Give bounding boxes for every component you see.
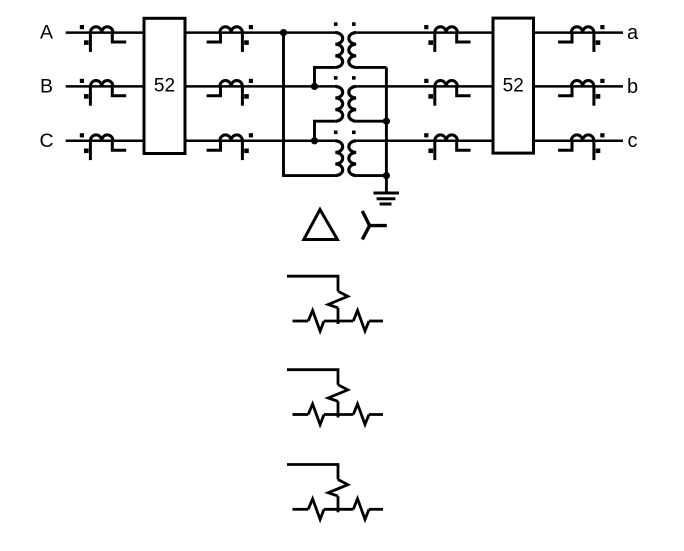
transformer T1 primary winding (delta, phase A) xyxy=(335,33,342,68)
ground (wye neutral) xyxy=(374,193,400,204)
transformer T2 secondary winding (wye, phase b) xyxy=(349,86,356,121)
wire wye W2 bottom to neutral xyxy=(356,120,386,123)
svg-text:b: b xyxy=(627,76,638,98)
resistor fig2 left xyxy=(308,404,324,425)
svg-text:52: 52 xyxy=(503,76,524,97)
CT phase b transformer-side right set xyxy=(424,79,470,106)
transformer T2 polarity dot secondary xyxy=(352,76,356,80)
transformer T2 polarity dot primary xyxy=(334,76,338,80)
wire fig3 bottom middle xyxy=(324,508,353,511)
transformer T1 polarity dot primary xyxy=(334,22,338,26)
wire phase b: transformer to breaker xyxy=(356,85,493,88)
wire phase c: breaker to label xyxy=(534,140,624,143)
wire wye neutral vertical xyxy=(385,67,388,191)
wire phase C: breaker to transformer xyxy=(185,140,336,143)
CT phase C transformer-side left set xyxy=(207,133,253,160)
wire fig1 top lead xyxy=(287,276,338,291)
node wye neutral junction b xyxy=(383,118,390,125)
svg-text:c: c xyxy=(628,130,638,152)
wire delta corner: phase A drop xyxy=(284,33,336,176)
wire phase a: breaker to label xyxy=(534,31,624,34)
delta symbol xyxy=(304,210,338,240)
svg-text:a: a xyxy=(627,22,639,44)
wire fig3 top lead xyxy=(287,465,338,480)
svg-text:A: A xyxy=(40,22,53,44)
resistor fig3 right xyxy=(353,499,369,520)
burden network figure 2 xyxy=(287,370,383,425)
wire fig2 top lead xyxy=(287,370,338,385)
wire fig1 bottom right lead xyxy=(369,320,383,323)
resistor fig1 left xyxy=(308,311,324,332)
wire phase c: transformer to breaker xyxy=(356,140,493,143)
resistor fig1 vertical xyxy=(328,291,348,308)
transformer T1 polarity dot secondary xyxy=(352,22,356,26)
transformer T3 polarity dot primary xyxy=(334,131,338,135)
CT phase a transformer-side right set xyxy=(424,25,470,52)
svg-text:C: C xyxy=(39,130,53,152)
transformer T1 secondary winding (wye, phase a) xyxy=(349,33,356,68)
resistor fig3 left xyxy=(308,499,324,520)
wire fig3 middle drop xyxy=(337,496,340,512)
CT phase c transformer-side right set xyxy=(424,133,470,160)
wire fig3 bottom right lead xyxy=(369,508,383,511)
resistor fig2 right xyxy=(353,404,369,425)
svg-text:B: B xyxy=(40,75,53,97)
CT phase A bus-side left set xyxy=(80,25,126,52)
node wye neutral junction c xyxy=(383,172,390,179)
wire winding W2 bottom to phase C xyxy=(315,121,336,141)
node delta corner C junction xyxy=(311,137,318,144)
burden network figure 1 xyxy=(287,276,383,331)
CT phase b load-side right set xyxy=(558,79,604,106)
transformer T3 secondary winding (wye, phase c) xyxy=(349,141,356,176)
wire winding W1 bottom to phase B xyxy=(315,67,336,86)
wire phase A: label to breaker xyxy=(66,31,144,34)
CT phase B transformer-side left set xyxy=(207,79,253,106)
node delta corner B junction xyxy=(311,83,318,90)
wire fig1 middle drop xyxy=(337,308,340,324)
wire fig3 bottom left lead xyxy=(293,508,309,511)
CT phase B bus-side left set xyxy=(80,79,126,106)
wire phase B: breaker to transformer xyxy=(185,85,336,88)
CT phase c load-side right set xyxy=(558,133,604,160)
wire wye W3 bottom to neutral xyxy=(356,174,386,177)
wire phase a: transformer to breaker xyxy=(356,31,493,34)
wire fig1 bottom left lead xyxy=(293,320,309,323)
breaker 52 right box xyxy=(493,18,534,153)
resistor fig2 vertical xyxy=(328,385,348,402)
resistor fig1 right xyxy=(353,310,369,331)
wire fig1 bottom middle xyxy=(324,320,353,323)
transformer T2 primary winding (delta, phase B) xyxy=(335,86,342,121)
wire phase b: breaker to label xyxy=(534,85,624,88)
wire fig2 bottom right lead xyxy=(369,413,383,416)
wire phase C: label to breaker xyxy=(66,140,144,143)
resistor fig3 vertical xyxy=(328,480,348,497)
wire wye W1 bottom to neutral xyxy=(356,66,386,69)
svg-text:52: 52 xyxy=(154,76,175,97)
wire fig2 middle drop xyxy=(337,401,340,417)
node delta corner A junction xyxy=(280,29,287,36)
transformer T3 primary winding (delta, phase C) xyxy=(335,141,342,176)
wire fig2 bottom middle xyxy=(324,413,353,416)
CT phase a load-side right set xyxy=(558,25,604,52)
burden network figure 3 xyxy=(287,465,383,520)
wire phase A: breaker to transformer xyxy=(185,31,336,34)
CT phase C bus-side left set xyxy=(80,133,126,160)
CT phase A transformer-side left set xyxy=(207,25,253,52)
wire fig2 bottom left lead xyxy=(293,413,309,416)
wire phase B: label to breaker xyxy=(66,85,144,88)
wye symbol xyxy=(362,211,387,240)
breaker 52 left box xyxy=(144,18,185,153)
transformer T3 polarity dot secondary xyxy=(352,131,356,135)
